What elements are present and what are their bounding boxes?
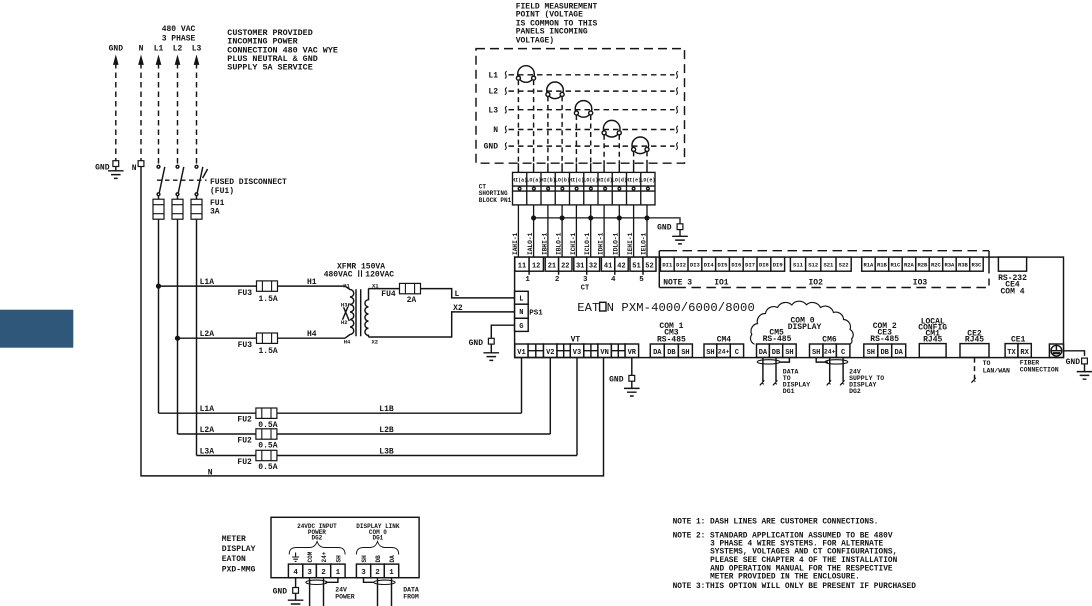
- riser L2B to V2: [549, 358, 551, 434]
- wire L2B row: [178, 433, 551, 435]
- svg-text:4: 4: [611, 276, 616, 284]
- svg-text:SH: SH: [681, 349, 689, 357]
- svg-text:3 PHASE 4 WIRE SYSTEMS. FOR AL: 3 PHASE 4 WIRE SYSTEMS. FOR ALTERNATE: [710, 540, 883, 548]
- svg-text:42: 42: [617, 262, 625, 270]
- svg-text:IBHI-1: IBHI-1: [541, 232, 548, 255]
- svg-text:DB: DB: [667, 349, 676, 357]
- wire L2 vertical: [177, 219, 179, 434]
- svg-text:R2B: R2B: [917, 262, 928, 269]
- svg-text:V2: V2: [546, 349, 554, 357]
- port CE4 RS-232 box: [998, 257, 1027, 296]
- svg-text:H3: H3: [341, 302, 348, 309]
- wire CT b drops dashed: [548, 96, 562, 163]
- svg-text:3: 3: [583, 276, 588, 284]
- svg-text:24+: 24+: [718, 349, 730, 356]
- svg-text:51: 51: [632, 262, 640, 270]
- junction IALO bus: [532, 216, 536, 220]
- svg-text:N: N: [493, 126, 498, 135]
- svg-text:DA: DA: [389, 555, 396, 563]
- fuse FU2 pole L3: [256, 450, 277, 460]
- meter PXM outline: [515, 257, 1064, 358]
- svg-text:11: 11: [518, 262, 526, 270]
- svg-text:POWER: POWER: [335, 593, 355, 600]
- port CM3 COM 1 RS-485: [650, 322, 692, 357]
- wire L2 field row: [505, 88, 678, 95]
- svg-text:FU2: FU2: [237, 458, 252, 467]
- svg-text:2: 2: [321, 569, 326, 577]
- wire N run to VN: [141, 167, 604, 476]
- wire display 24V plus: [323, 578, 325, 606]
- wire N incoming dashed arrow: [139, 56, 144, 161]
- svg-text:3: 3: [307, 569, 312, 577]
- svg-text:DI4: DI4: [704, 262, 715, 269]
- svg-text:AND OPERATION MANUAL FOR THE R: AND OPERATION MANUAL FOR THE RESPECTIVE: [710, 565, 893, 573]
- svg-text:DG1: DG1: [783, 388, 795, 395]
- svg-text:5: 5: [639, 276, 644, 284]
- svg-text:VOLTAGE): VOLTAGE): [516, 36, 554, 45]
- svg-text:DG2: DG2: [849, 388, 861, 395]
- svg-text:2A: 2A: [407, 296, 417, 305]
- shorting block screws: [518, 187, 649, 190]
- ground PS1 G: [469, 338, 500, 360]
- svg-text:IALO-1: IALO-1: [527, 232, 534, 255]
- svg-text:L1A: L1A: [200, 278, 215, 287]
- svg-text:DISPLAY: DISPLAY: [788, 323, 822, 332]
- svg-text:L3: L3: [192, 45, 202, 54]
- svg-text:POINT (VOLTAGE: POINT (VOLTAGE: [516, 11, 583, 20]
- svg-text:PS1: PS1: [529, 309, 543, 317]
- svg-text:DI8: DI8: [759, 262, 770, 269]
- label 480 VAC 3 PHASE: [162, 25, 196, 44]
- fuse FU4: [400, 283, 421, 293]
- svg-text:H1: H1: [343, 282, 350, 289]
- svg-text:GND: GND: [273, 587, 288, 596]
- svg-text:X2: X2: [372, 338, 379, 345]
- power supply terminal L: [515, 291, 529, 304]
- svg-text:DI9: DI9: [773, 262, 783, 269]
- terminal VN: [598, 344, 612, 357]
- port CM6: [810, 336, 850, 358]
- svg-text:24+: 24+: [321, 551, 328, 562]
- meter display outline: [271, 517, 419, 577]
- pin symbol earth above 4: [292, 553, 299, 562]
- terminal DG1-2: [371, 564, 385, 578]
- CT d on N: [602, 120, 621, 137]
- brace DG2 group: [289, 542, 345, 555]
- wire CT c drops dashed: [576, 115, 590, 163]
- brace DG1 group: [356, 542, 398, 555]
- svg-text:H1: H1: [307, 278, 317, 287]
- wire X2 to N terminal: [368, 312, 514, 337]
- svg-text:LO(c): LO(c): [583, 177, 598, 183]
- svg-text:EATON: EATON: [222, 555, 246, 564]
- label CT SHORTING BLOCK PN1: [479, 183, 512, 204]
- svg-text:DI5: DI5: [718, 262, 729, 269]
- note customer provided incoming power: [227, 28, 338, 72]
- svg-text:IO3: IO3: [913, 278, 928, 287]
- ground meter chassis: [1064, 351, 1092, 379]
- svg-text:S22: S22: [839, 262, 849, 269]
- label 480VAC || 120VAC: [324, 270, 395, 279]
- terminal V2: [544, 344, 558, 357]
- svg-text:SYSTEMS, VOLTAGES AND CT CONFI: SYSTEMS, VOLTAGES AND CT CONFIGURATIONS,: [710, 549, 897, 557]
- label 24VDC INPUT POWER DG2: [297, 523, 337, 542]
- cable CM6 twisted pair: [825, 360, 848, 364]
- svg-text:(FU1): (FU1): [210, 187, 234, 196]
- svg-text:CONNECTION: CONNECTION: [1020, 366, 1059, 373]
- label COM 0 DISPLAY: [788, 316, 822, 332]
- port CE3 COM 2 RS-485: [864, 322, 906, 358]
- svg-text:FU2: FU2: [237, 437, 252, 446]
- svg-text:FU4: FU4: [381, 290, 396, 299]
- wire CT a drops dashed: [518, 80, 533, 163]
- protective earth symbol: [1049, 344, 1063, 357]
- svg-text:CT: CT: [581, 284, 589, 292]
- svg-text:GND: GND: [95, 164, 110, 173]
- note 2 standard application: [673, 532, 898, 581]
- fuse FU3 L1A: [257, 281, 278, 291]
- svg-text:120VAC: 120VAC: [365, 270, 394, 279]
- svg-text:12: 12: [532, 262, 540, 270]
- IO2 terminals S11 S12 S21 S22: [790, 257, 851, 271]
- wire N field row: [505, 126, 678, 133]
- note field measurement point: [516, 3, 598, 46]
- wire display 24V COM: [309, 578, 311, 606]
- svg-text:N: N: [139, 45, 144, 54]
- svg-text:SH: SH: [812, 349, 820, 357]
- svg-text:GND: GND: [1066, 358, 1081, 367]
- cable display power twisted pair: [306, 580, 327, 584]
- svg-text:VR: VR: [628, 349, 637, 357]
- svg-text:21: 21: [548, 262, 556, 270]
- svg-text:FU3: FU3: [238, 289, 253, 298]
- svg-text:480VAC: 480VAC: [324, 270, 353, 279]
- power supply terminal G: [515, 318, 529, 331]
- svg-text:RS-485: RS-485: [657, 335, 686, 344]
- svg-text:DB: DB: [375, 555, 382, 563]
- svg-text:R2C: R2C: [931, 262, 942, 269]
- label DATA TO DISPLAY DG1: [783, 369, 810, 396]
- svg-text:METER PROVIDED IN THE ENCLOSUR: METER PROVIDED IN THE ENCLOSURE.: [710, 573, 860, 581]
- link V1-V2: [528, 344, 543, 357]
- node N terminal square: [132, 161, 144, 173]
- svg-text:SH: SH: [785, 349, 793, 357]
- svg-text:L1A: L1A: [200, 405, 215, 414]
- wire CM6 SH drain: [816, 358, 828, 363]
- svg-text:HI(c): HI(c): [569, 177, 584, 183]
- terminal VR: [625, 344, 639, 357]
- svg-text:1: 1: [525, 276, 530, 284]
- junction ICLO bus: [589, 216, 593, 220]
- svg-text:R1C: R1C: [890, 262, 901, 269]
- wire L1 field row: [505, 71, 678, 78]
- svg-text:HI(b): HI(b): [541, 177, 556, 183]
- fuse FU2 pole L2: [256, 429, 277, 439]
- svg-text:RS-485: RS-485: [763, 335, 792, 344]
- fuse FU1 pole L3: [191, 196, 202, 219]
- svg-text:G: G: [519, 323, 523, 331]
- svg-text:FU3: FU3: [238, 341, 253, 350]
- svg-text:H4: H4: [344, 338, 351, 345]
- wire display link SH drain: [364, 578, 374, 583]
- svg-text:0.5A: 0.5A: [258, 463, 277, 472]
- power supply terminal N: [515, 304, 529, 318]
- fuse FU2 pole L1: [256, 408, 277, 418]
- svg-text:IAHI-1: IAHI-1: [512, 232, 519, 255]
- svg-text:DB: DB: [772, 349, 781, 357]
- svg-text:L: L: [519, 296, 523, 304]
- wire L1 incoming dashed arrow: [156, 56, 161, 164]
- svg-text:R3A: R3A: [944, 262, 955, 269]
- svg-text:COM 4: COM 4: [1000, 287, 1024, 296]
- svg-text:NOTE 2: STANDARD APPLICATION A: NOTE 2: STANDARD APPLICATION ASSUMED TO …: [673, 532, 893, 540]
- wire GND field row: [505, 143, 678, 150]
- svg-text:S21: S21: [823, 262, 834, 269]
- label DISPLAY LINK COM 0 DG1: [356, 523, 400, 542]
- svg-text:DI3: DI3: [690, 262, 701, 269]
- svg-text:COM: COM: [307, 551, 314, 562]
- svg-text:IO1: IO1: [714, 278, 729, 287]
- svg-text:GND: GND: [109, 45, 124, 54]
- svg-text:DG1: DG1: [372, 535, 383, 542]
- wire L3 vertical: [196, 219, 198, 455]
- riser L1B to V1: [521, 358, 523, 414]
- terminal DG1-1: [384, 564, 398, 578]
- terminal DG1-3: [356, 564, 370, 578]
- svg-text:22: 22: [561, 262, 569, 270]
- fuse FU3 L2A: [257, 333, 278, 343]
- svg-text:SH: SH: [361, 555, 368, 563]
- svg-text:NOTE 3: NOTE 3: [663, 278, 692, 287]
- terminal pair 31 32: [574, 257, 600, 284]
- wire CM5 SH drain: [779, 358, 789, 363]
- svg-text:LO(d): LO(d): [612, 177, 627, 183]
- wire X1 to FU4 to L terminal: [368, 289, 514, 298]
- svg-text:24+: 24+: [824, 349, 836, 356]
- svg-text:R1B: R1B: [877, 262, 888, 269]
- svg-text:PLEASE SEE CHAPTER 4 OF THE IN: PLEASE SEE CHAPTER 4 OF THE INSTALLATION: [710, 557, 897, 565]
- svg-text:L3B: L3B: [379, 447, 394, 456]
- wire CM5 DB to display: [773, 358, 777, 386]
- svg-text:1.5A: 1.5A: [259, 347, 278, 356]
- svg-text:HI(a): HI(a): [512, 177, 527, 183]
- cable CM5 twisted pair: [757, 360, 780, 364]
- terminal DG2-4: [288, 564, 302, 578]
- IO3 relay terminals R1A-R3C: [862, 257, 984, 271]
- svg-text:ICLO-1: ICLO-1: [584, 232, 591, 255]
- terminal pair 21 22: [545, 257, 572, 284]
- shorting block terminal labels: [512, 177, 655, 183]
- wire CE2 to LAN/WAN dashed: [972, 358, 976, 383]
- svg-text:PXD-MMG: PXD-MMG: [222, 565, 256, 574]
- port CM5 RS-485: [757, 328, 797, 357]
- port CM4: [704, 336, 744, 358]
- transformer T1 secondary winding: [365, 289, 369, 337]
- svg-text:R3C: R3C: [971, 262, 982, 269]
- wire LO common bus: [534, 218, 680, 224]
- svg-text:S11: S11: [793, 262, 804, 269]
- CT a on L1: [516, 66, 535, 83]
- svg-text:L2B: L2B: [379, 426, 394, 435]
- ground CT bus: [657, 224, 688, 244]
- svg-text:TX: TX: [1007, 349, 1016, 357]
- transformer T1 tap crossing H3 H2: [342, 303, 349, 321]
- wire L3B row: [197, 455, 578, 457]
- port CM1 RJ45 local config: [918, 317, 947, 357]
- switch L1 pole of FU1 disconnect: [157, 165, 165, 195]
- svg-text:N PXM-4000/6000/8000: N PXM-4000/6000/8000: [607, 301, 755, 315]
- svg-text:R3B: R3B: [958, 262, 969, 269]
- svg-text:31: 31: [576, 262, 584, 270]
- svg-text:IBLO-1: IBLO-1: [556, 232, 563, 255]
- svg-text:RX: RX: [1020, 349, 1029, 357]
- transformer T1 core: [356, 289, 361, 336]
- svg-text:CM6: CM6: [822, 336, 837, 345]
- label TO LAN/WAN: [983, 360, 1010, 375]
- svg-text:EAT: EAT: [577, 301, 599, 315]
- svg-text:SH: SH: [335, 555, 342, 563]
- svg-text:V1: V1: [517, 349, 525, 357]
- svg-text:TO: TO: [983, 360, 991, 367]
- svg-text:IDLO-1: IDLO-1: [613, 232, 620, 255]
- wire CM5 DA to display: [760, 358, 764, 386]
- svg-text:R1A: R1A: [863, 262, 874, 269]
- svg-text:H4: H4: [307, 330, 317, 339]
- cable display link twisted pair: [374, 580, 395, 584]
- svg-text:DB: DB: [880, 349, 889, 357]
- fuse FU1 pole L2: [172, 196, 183, 219]
- svg-text:IEHI-1: IEHI-1: [627, 232, 634, 255]
- wires shorting block to meter CT terminals: [518, 205, 647, 257]
- svg-text:480 VAC: 480 VAC: [162, 25, 196, 34]
- wire L3 field row: [505, 106, 678, 113]
- wire display link DB: [377, 578, 379, 606]
- terminal pair 11 12: [515, 257, 544, 284]
- junction IELO bus: [645, 216, 649, 220]
- svg-text:LO(b): LO(b): [555, 177, 570, 183]
- svg-text:L1: L1: [488, 71, 498, 80]
- terminal DG2-1: [331, 564, 345, 578]
- switch L3 pole of FU1 disconnect: [195, 165, 203, 195]
- svg-text:VT: VT: [571, 335, 581, 344]
- terminal V1: [515, 344, 528, 357]
- svg-text:FU2: FU2: [237, 416, 252, 425]
- svg-text:0.5A: 0.5A: [258, 442, 277, 451]
- svg-text:FUSED DISCONNECT: FUSED DISCONNECT: [210, 178, 287, 187]
- svg-text:RS-485: RS-485: [870, 335, 899, 344]
- svg-text:SH: SH: [867, 349, 875, 357]
- svg-text:3A: 3A: [210, 207, 220, 216]
- svg-text:R2A: R2A: [904, 262, 915, 269]
- port CE1 TX RX: [1005, 335, 1031, 357]
- blue sidebar tab: [0, 310, 73, 348]
- svg-text:GND: GND: [609, 375, 624, 384]
- svg-text:L2: L2: [173, 45, 183, 54]
- label FU1 3A: [210, 199, 225, 216]
- wire L2A row to H4: [178, 337, 346, 339]
- terminal V3: [570, 344, 584, 357]
- svg-text:ICHI-1: ICHI-1: [570, 232, 577, 255]
- svg-text:C: C: [841, 349, 845, 357]
- svg-text:L3A: L3A: [200, 447, 215, 456]
- svg-text:2: 2: [555, 276, 560, 284]
- svg-text:CM4: CM4: [717, 336, 732, 345]
- CT b on L2: [546, 82, 564, 99]
- link V2-V3: [557, 344, 570, 357]
- svg-text:3 PHASE: 3 PHASE: [162, 35, 196, 44]
- label FUSED DISCONNECT (FU1): [210, 178, 287, 196]
- svg-text:METER: METER: [222, 535, 246, 544]
- svg-text:L1B: L1B: [379, 405, 394, 414]
- wire L2 incoming dashed arrow: [175, 56, 180, 164]
- link VN-VR: [611, 344, 625, 357]
- wire L3 incoming dashed arrow: [194, 56, 199, 164]
- fuse FU1 pole L1: [153, 196, 164, 219]
- svg-text:N: N: [208, 468, 213, 477]
- svg-text:L1: L1: [154, 45, 164, 54]
- svg-text:LO(e): LO(e): [640, 177, 655, 183]
- CT shorting block PN1 body: [513, 172, 656, 205]
- junction L1/L1A: [157, 284, 161, 288]
- svg-text:DA: DA: [759, 349, 768, 357]
- wire CT d drops dashed: [604, 135, 619, 163]
- terminal pair 41 42: [601, 257, 628, 284]
- svg-text:DI1: DI1: [662, 262, 673, 269]
- svg-text:S12: S12: [808, 262, 818, 269]
- label DATA FROM: [403, 587, 419, 601]
- wire L1A row to H1: [159, 285, 346, 287]
- svg-text:HI(e): HI(e): [626, 177, 641, 183]
- svg-text:DA: DA: [894, 349, 903, 357]
- ground VR: [609, 358, 640, 396]
- wire L1B row: [159, 412, 522, 414]
- svg-text:GND: GND: [657, 224, 672, 233]
- wire G terminal to ground: [491, 325, 514, 338]
- CT e on GND: [632, 137, 649, 154]
- ground display terminal 4: [273, 578, 304, 606]
- svg-text:DI2: DI2: [676, 262, 686, 269]
- svg-text:DISPLAY: DISPLAY: [222, 545, 256, 554]
- svg-text:VN: VN: [600, 349, 608, 357]
- svg-text:2: 2: [375, 569, 380, 577]
- svg-text:PANELS INCOMING: PANELS INCOMING: [516, 28, 588, 37]
- label FIBER CONNECTION: [1020, 360, 1059, 374]
- wire CM6 24+ to display: [827, 358, 831, 386]
- svg-text:SUPPLY 5A SERVICE: SUPPLY 5A SERVICE: [227, 63, 312, 73]
- svg-text:DI6: DI6: [731, 262, 741, 269]
- wire CT e drops dashed: [634, 151, 647, 163]
- wire CM6 C to display: [840, 358, 844, 386]
- svg-text:C: C: [735, 349, 739, 357]
- transformer T1 primary winding: [345, 286, 354, 338]
- svg-text:BLOCK PN1: BLOCK PN1: [479, 197, 512, 204]
- svg-text:L3: L3: [488, 106, 498, 115]
- svg-text:FROM: FROM: [403, 593, 419, 600]
- svg-text:IO2: IO2: [808, 278, 823, 287]
- svg-text:1: 1: [336, 569, 341, 577]
- link V3-VN: [584, 344, 598, 357]
- disconnect linkage dashed tie bar: [157, 169, 208, 180]
- wire L1 vertical: [158, 219, 160, 413]
- svg-text:52: 52: [645, 262, 653, 270]
- junction L2/L2A: [176, 336, 180, 340]
- label 24V POWER: [335, 587, 355, 601]
- label 24V SUPPLY TO DISPLAY DG2: [849, 369, 884, 396]
- svg-text:H2: H2: [341, 319, 348, 326]
- IO options dashed box note 3: [659, 251, 989, 288]
- wire display SH drain: [325, 578, 338, 583]
- svg-text:LAN/WAN: LAN/WAN: [983, 368, 1010, 375]
